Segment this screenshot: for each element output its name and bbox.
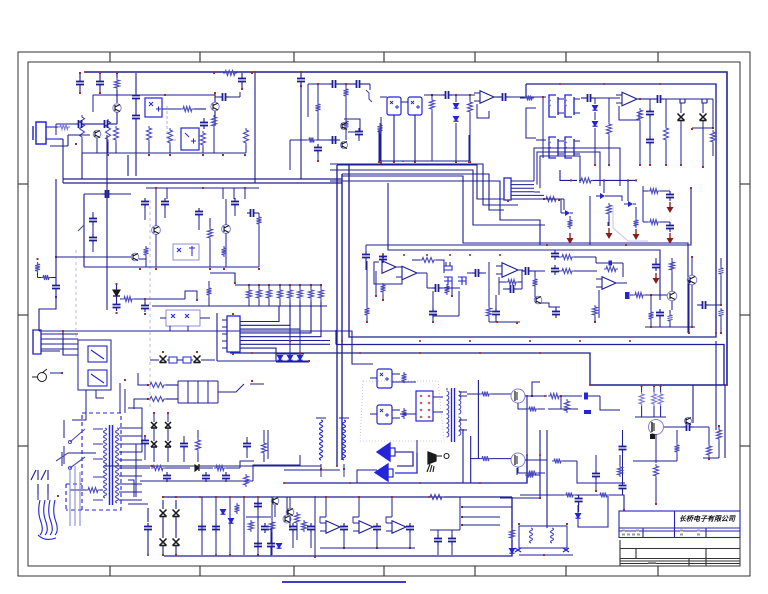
capacitor C7 C8 series: [308, 83, 330, 85]
rail second stage: [84, 266, 259, 268]
series cap and resistor to gate: [625, 292, 630, 299]
rectifier matrix D20-D23: [151, 422, 157, 428]
wire bottom rail 497: [164, 496, 512, 498]
wire stepped bus fan 4: [388, 183, 660, 300]
wire lower mid bus: [152, 465, 316, 467]
title block frame: [619, 511, 740, 538]
border tick marks: [109, 52, 111, 62]
op-amp U13: [596, 262, 623, 264]
connector K1 with pin fan: [504, 178, 511, 200]
junction dots: [84, 71, 86, 73]
input resistors R50 R51: [554, 250, 556, 254]
wire vertical x255: [254, 72, 256, 183]
capacitor C18: [432, 287, 436, 289]
wire bottom bus 483: [284, 455, 527, 483]
bridge rectifier D12-D15: [147, 508, 149, 522]
wire 481 with caps: [140, 480, 253, 482]
transistor Q3 with input caps: [93, 130, 101, 138]
wire top bus net VCC: [85, 72, 727, 385]
resistor group second stage: [144, 246, 149, 257]
headphone jack J5: [428, 452, 436, 464]
filter parts group: [201, 523, 203, 527]
transistor Q2: [211, 102, 219, 110]
wire inlet J2 links: [32, 330, 34, 353]
resistor R12 right: [712, 99, 714, 128]
MOSFET Q12 gate drive: [480, 392, 491, 397]
optocoupler box pair U20: [173, 244, 199, 260]
capacitor C16 network: [144, 302, 146, 306]
wire stepped bus fan 2: [330, 170, 545, 225]
wire stepped bus fan 1: [330, 164, 518, 205]
resistor R0 on bus: [223, 71, 237, 76]
diode D3 D4 zener: [581, 97, 585, 99]
resistor group RB: [316, 102, 321, 113]
capacitor C20 coupling: [84, 193, 103, 195]
feedback loop small: [344, 119, 360, 132]
bias network Q8: [650, 295, 652, 310]
capacitor C30 and branch: [595, 455, 597, 470]
wire loop to connector: [545, 199, 561, 213]
IC box U2: [181, 128, 199, 150]
wire arrows feed: [569, 196, 571, 233]
capacitor C6 polarized: [300, 71, 302, 73]
wire x716 upper: [715, 83, 717, 85]
gate drive Q12 network: [527, 395, 547, 397]
wire choke to bus: [316, 469, 350, 483]
capacitor C1 and C2 on top bus: [79, 73, 81, 78]
resistor capacitor left column: [35, 262, 40, 273]
buffer op-amps U14 U15 U16: [325, 497, 327, 517]
transistor Q16 Q17 regulator: [271, 497, 279, 505]
wire mid bus 335: [39, 331, 373, 364]
resistor R35 LED: [510, 528, 515, 540]
transistor Q1: [113, 104, 121, 112]
connector J2: [33, 330, 41, 354]
snubber caps: [622, 430, 624, 444]
dashed line near U1: [167, 106, 176, 140]
wire inlet filter loop: [58, 138, 63, 140]
transistor Q20 Q21: [152, 226, 161, 235]
wire bottom rail 555: [164, 497, 512, 556]
wire bottom 495: [520, 495, 624, 509]
diode D1 D2 with resistor: [442, 94, 446, 96]
wire relay to transformer: [96, 390, 104, 398]
wire T1 to rails: [128, 503, 148, 505]
capacitor group second stage: [144, 198, 146, 202]
output network caps: [646, 98, 655, 100]
gate clamp network: [664, 426, 683, 428]
right resistors R55 R56: [697, 304, 700, 306]
transistor Q8 Q9: [667, 291, 677, 301]
connector K2 multi-pin header: [227, 316, 240, 352]
wire faint dashed construction: [149, 200, 151, 410]
optocoupler U3 U4: [387, 97, 401, 115]
diode D24 wire 468: [140, 467, 150, 469]
IC box U1: [145, 98, 162, 117]
wire speaker leads: [395, 452, 413, 466]
wire header area links: [216, 313, 218, 361]
rail cluster C: [379, 160, 470, 162]
resistor R2 between boxes: [181, 107, 194, 112]
wire bottom mid vertical: [526, 395, 528, 483]
resistor bank RA1: [80, 115, 85, 139]
LED strip D9 D10 D11: [278, 356, 283, 361]
wire right column: [688, 280, 690, 333]
wire cluster A node 95: [93, 94, 215, 96]
sheet inner border frame: [28, 62, 740, 566]
wire T2 out right: [459, 382, 540, 396]
diode D5 D6 black pair: [676, 99, 685, 103]
relay contact K3: [61, 452, 63, 466]
speaker SP1 SP2: [377, 443, 390, 461]
wire fan from left: [337, 165, 504, 199]
MOSFET Q15 lower: [511, 453, 525, 467]
wire opto to T2: [400, 382, 416, 414]
resistor ladder fusible block: [148, 383, 166, 388]
op-amp U19 third stage: [502, 263, 518, 277]
wire Q15 drain net: [539, 430, 541, 498]
highlighted wire: [613, 206, 648, 241]
output rectifier group: [519, 526, 567, 548]
wire left vertical drop: [62, 143, 64, 183]
crystal Y1 and trimmers: [444, 266, 452, 270]
op-amp U11 U12 error amp: [382, 256, 384, 258]
wire vertical x107: [106, 135, 108, 310]
diode and jumper row D7 J3 J4 D8: [160, 356, 167, 363]
capacitor C21 C22 stack: [92, 215, 94, 219]
buzzer BZ1: [38, 373, 47, 382]
output RC network: [428, 495, 444, 500]
resistor R1: [115, 78, 120, 90]
wire stepped bus fan 3: [342, 176, 688, 333]
construction dotted lines: [363, 380, 438, 382]
wire into transformer top: [119, 383, 121, 413]
transformer T2: [447, 391, 449, 437]
transistor Q11 regulator: [283, 515, 291, 523]
wire right lower vertical: [715, 341, 717, 430]
transistor Q4a Q4b: [366, 90, 372, 102]
resistor ladder RB2: [235, 284, 321, 286]
wire output grid verticals: [201, 497, 203, 555]
wire x693 drop: [692, 385, 694, 423]
diode D11 with resistor: [113, 290, 120, 296]
transistor T5 branch: [544, 197, 558, 202]
wire long vertical A: [336, 165, 338, 466]
optocoupler U17 U18: [377, 369, 392, 388]
wire left col down: [63, 331, 78, 355]
wire left vertical 56: [55, 179, 57, 257]
wire speaker feed: [357, 440, 417, 483]
wire header fan-out: [240, 306, 279, 322]
MOSFET Q13 main switch: [649, 420, 664, 435]
connector J1 AC inlet: [36, 122, 46, 144]
dashed box around T1: [82, 413, 121, 510]
AC cord leads: [39, 500, 43, 535]
tap selector contacts: [70, 429, 85, 442]
wire T1 secondary to bridge: [128, 408, 142, 497]
switch SW1: [218, 384, 264, 392]
wire bottom 470 bus: [284, 469, 340, 471]
connector K4 with red pins: [416, 391, 433, 421]
title block small labels: [622, 530, 625, 532]
optocoupler U6 U7 pairs: [549, 95, 556, 117]
capacitor C40 resistor R41: [246, 440, 248, 444]
RC to arrows right: [648, 189, 660, 194]
blue revision underline: [282, 581, 406, 583]
wire right loop leg down: [724, 385, 726, 458]
wire long vertical B: [341, 174, 343, 460]
capacitor C3a C3b series: [135, 73, 137, 92]
wire 466 links: [104, 465, 152, 467]
wire second top loop: [349, 84, 716, 337]
wire mid bus pair upper: [63, 178, 342, 180]
wire vertical 315: [314, 496, 316, 556]
svg-text:长桥电子有限公司: 长桥电子有限公司: [679, 514, 736, 523]
choke L1 L2 windings: [320, 420, 323, 460]
op-amp U5 with output cap: [480, 91, 494, 104]
cluster L lower parts: [365, 306, 370, 317]
resistor R9: [430, 98, 435, 111]
resistor trio gate: [641, 386, 643, 392]
rail of cluster A: [82, 152, 246, 154]
transistor T7 branch: [624, 203, 628, 205]
wire bus 188: [146, 187, 259, 189]
lower title table: [620, 548, 740, 550]
op-amp U8 feedback: [622, 92, 637, 106]
wire mid bus pair lower: [63, 182, 342, 184]
optocoupler U21 box: [166, 310, 200, 326]
wire hanging stubs: [380, 117, 382, 162]
relay RL1 RL2: [78, 340, 111, 390]
wire mid bus 353: [230, 353, 590, 385]
wire right mid bus: [336, 345, 724, 386]
transistor Q22: [131, 253, 139, 261]
wire E top 180: [560, 170, 577, 180]
transformer T1: [109, 425, 111, 505]
capacitor C4a C4b: [203, 119, 205, 123]
transistor T6 branch: [603, 180, 605, 193]
switch SW2 mains: [31, 470, 38, 494]
dashed vertical construction line: [75, 250, 77, 340]
resistor R30 primary: [86, 488, 100, 493]
wire bus 245: [366, 188, 691, 245]
